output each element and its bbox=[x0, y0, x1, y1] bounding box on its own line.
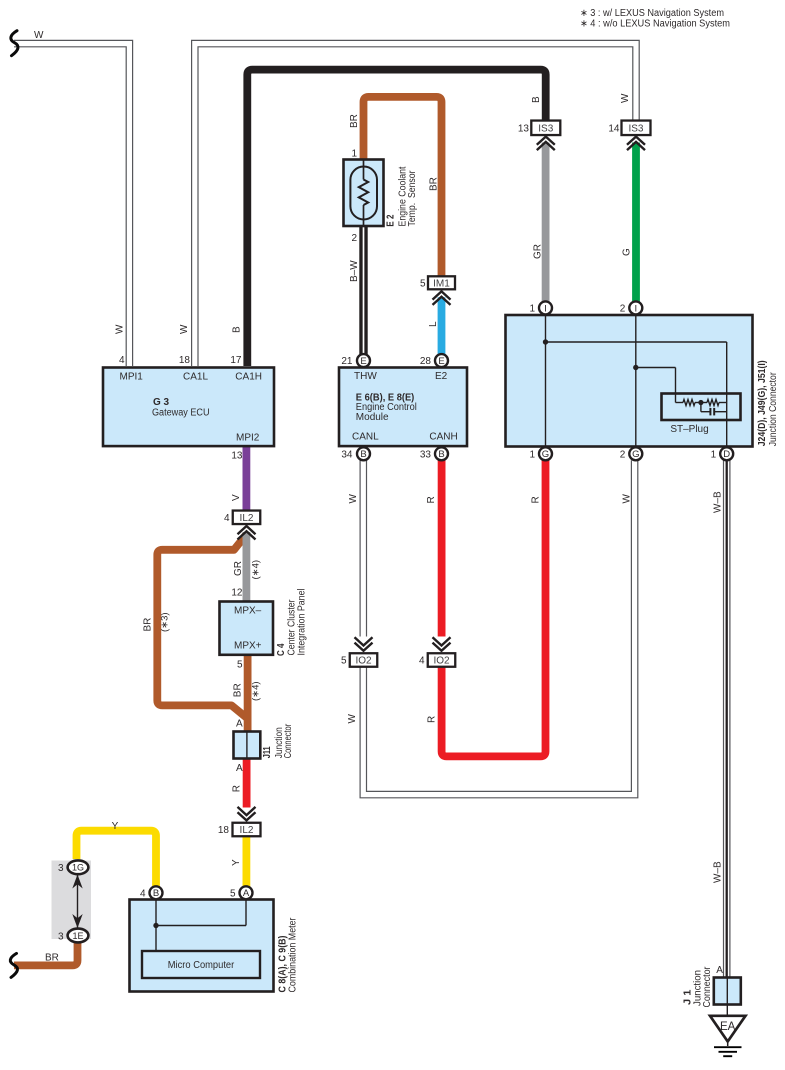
svg-text:Module: Module bbox=[356, 412, 389, 423]
svg-text:W: W bbox=[179, 324, 190, 334]
svg-text:V: V bbox=[231, 494, 242, 501]
svg-text:5: 5 bbox=[420, 278, 426, 289]
svg-text:2: 2 bbox=[620, 304, 626, 315]
svg-text:B: B bbox=[360, 449, 366, 460]
svg-text:J11: J11 bbox=[262, 746, 273, 758]
svg-text:IS3: IS3 bbox=[628, 123, 643, 134]
svg-text:1E: 1E bbox=[72, 931, 83, 941]
svg-text:CANH: CANH bbox=[429, 432, 457, 443]
svg-text:W–B: W–B bbox=[713, 491, 724, 513]
svg-text:THW: THW bbox=[354, 371, 377, 382]
svg-text:34: 34 bbox=[341, 449, 353, 460]
svg-text:13: 13 bbox=[518, 123, 530, 134]
svg-text:B: B bbox=[232, 326, 243, 333]
svg-text:B: B bbox=[438, 449, 444, 460]
svg-text:1: 1 bbox=[529, 304, 535, 315]
svg-text:GR: GR bbox=[233, 561, 244, 576]
svg-text:W: W bbox=[620, 93, 631, 103]
svg-text:Combination Meter: Combination Meter bbox=[288, 917, 299, 993]
svg-text:Connector: Connector bbox=[283, 723, 294, 758]
svg-text:Y: Y bbox=[231, 859, 242, 866]
svg-text:MPX+: MPX+ bbox=[234, 641, 262, 652]
svg-text:4: 4 bbox=[140, 888, 146, 899]
svg-text:BR: BR bbox=[233, 683, 244, 697]
svg-text:12: 12 bbox=[231, 587, 243, 598]
svg-text:MPI1: MPI1 bbox=[120, 372, 144, 383]
svg-text:(∗3): (∗3) bbox=[160, 612, 171, 632]
svg-text:C 4: C 4 bbox=[276, 643, 287, 656]
svg-text:4: 4 bbox=[119, 355, 125, 366]
svg-text:Temp. Sensor: Temp. Sensor bbox=[407, 170, 418, 227]
svg-text:18: 18 bbox=[179, 355, 191, 366]
svg-text:5: 5 bbox=[230, 888, 236, 899]
svg-text:A: A bbox=[236, 763, 243, 774]
svg-text:IL2: IL2 bbox=[240, 513, 254, 524]
svg-text:G 3: G 3 bbox=[153, 397, 170, 408]
svg-text:W: W bbox=[622, 494, 633, 504]
svg-text:GR: GR bbox=[533, 244, 544, 259]
svg-text:5: 5 bbox=[237, 660, 243, 671]
svg-text:W–B: W–B bbox=[713, 861, 724, 883]
svg-text:G: G bbox=[632, 449, 639, 460]
svg-text:IO2: IO2 bbox=[355, 656, 372, 667]
svg-text:CANL: CANL bbox=[352, 432, 379, 443]
svg-text:B–W: B–W bbox=[349, 260, 360, 282]
svg-text:2: 2 bbox=[351, 233, 357, 244]
svg-text:W: W bbox=[348, 494, 359, 504]
svg-text:I: I bbox=[634, 303, 637, 314]
svg-text:A: A bbox=[236, 718, 243, 729]
svg-text:BR: BR bbox=[429, 177, 440, 191]
svg-text:1: 1 bbox=[351, 148, 357, 159]
svg-text:E: E bbox=[360, 356, 366, 367]
svg-text:14: 14 bbox=[608, 123, 620, 134]
svg-text:D: D bbox=[723, 449, 730, 460]
svg-text:A: A bbox=[243, 888, 250, 899]
svg-text:W: W bbox=[115, 324, 126, 334]
svg-text:EA: EA bbox=[720, 1021, 736, 1033]
svg-text:33: 33 bbox=[420, 449, 432, 460]
svg-text:R: R bbox=[531, 496, 542, 503]
svg-text:13: 13 bbox=[231, 451, 243, 462]
svg-text:R: R bbox=[231, 785, 242, 792]
svg-text:BR: BR bbox=[349, 114, 360, 128]
svg-text:A: A bbox=[716, 965, 723, 976]
svg-text:CA1H: CA1H bbox=[235, 372, 262, 383]
svg-text:E: E bbox=[438, 356, 444, 367]
svg-text:18: 18 bbox=[218, 825, 230, 836]
svg-text:W: W bbox=[34, 30, 44, 41]
svg-text:E 2: E 2 bbox=[386, 214, 397, 226]
svg-text:1: 1 bbox=[711, 449, 717, 460]
svg-text:1: 1 bbox=[529, 449, 535, 460]
svg-text:B: B bbox=[153, 888, 159, 899]
svg-text:G: G bbox=[542, 449, 549, 460]
svg-text:BR: BR bbox=[143, 618, 154, 632]
svg-text:Gateway ECU: Gateway ECU bbox=[152, 408, 210, 419]
svg-text:Integration Panel: Integration Panel bbox=[296, 589, 307, 656]
svg-text:W: W bbox=[347, 714, 358, 724]
svg-text:L: L bbox=[428, 321, 439, 327]
svg-text:3: 3 bbox=[58, 931, 64, 942]
svg-text:(∗4): (∗4) bbox=[250, 560, 261, 580]
svg-text:J24(D), J49(G), J51(I): J24(D), J49(G), J51(I) bbox=[757, 360, 768, 446]
svg-text:2: 2 bbox=[620, 449, 626, 460]
svg-text:MPI2: MPI2 bbox=[236, 433, 260, 444]
svg-text:Y: Y bbox=[112, 821, 119, 832]
svg-text:IO2: IO2 bbox=[433, 656, 450, 667]
svg-text:Micro Computer: Micro Computer bbox=[168, 960, 235, 971]
svg-text:4: 4 bbox=[224, 513, 230, 524]
svg-text:17: 17 bbox=[230, 355, 242, 366]
svg-text:I: I bbox=[544, 303, 547, 314]
svg-text:21: 21 bbox=[341, 356, 353, 367]
svg-text:5: 5 bbox=[341, 656, 347, 667]
svg-text:MPX–: MPX– bbox=[234, 606, 262, 617]
svg-text:G: G bbox=[622, 248, 633, 256]
svg-text:28: 28 bbox=[420, 356, 432, 367]
svg-text:R: R bbox=[427, 716, 438, 723]
svg-text:IS3: IS3 bbox=[538, 123, 553, 134]
svg-text:Junction Connector: Junction Connector bbox=[768, 372, 779, 447]
svg-text:E2: E2 bbox=[435, 371, 448, 382]
svg-text:1G: 1G bbox=[72, 863, 84, 873]
svg-text:CA1L: CA1L bbox=[183, 372, 208, 383]
svg-text:3: 3 bbox=[58, 863, 64, 874]
svg-text:Connector: Connector bbox=[702, 966, 713, 1008]
svg-text:B: B bbox=[531, 96, 542, 103]
svg-text:R: R bbox=[426, 496, 437, 503]
svg-text:BR: BR bbox=[45, 952, 59, 963]
svg-text:(∗4): (∗4) bbox=[251, 681, 262, 701]
svg-text:4: 4 bbox=[419, 656, 425, 667]
svg-text:IL2: IL2 bbox=[240, 825, 254, 836]
svg-text:IM1: IM1 bbox=[433, 278, 450, 289]
svg-text:∗ 4 : w/o LEXUS Navigation Sys: ∗ 4 : w/o LEXUS Navigation System bbox=[580, 18, 730, 29]
svg-text:ST–Plug: ST–Plug bbox=[670, 424, 708, 435]
